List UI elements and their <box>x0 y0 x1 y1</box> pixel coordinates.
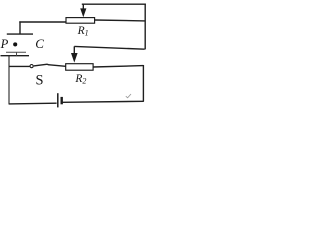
svg-text:P: P <box>0 37 9 51</box>
svg-text:S: S <box>36 72 44 88</box>
svg-text:C: C <box>35 36 44 51</box>
